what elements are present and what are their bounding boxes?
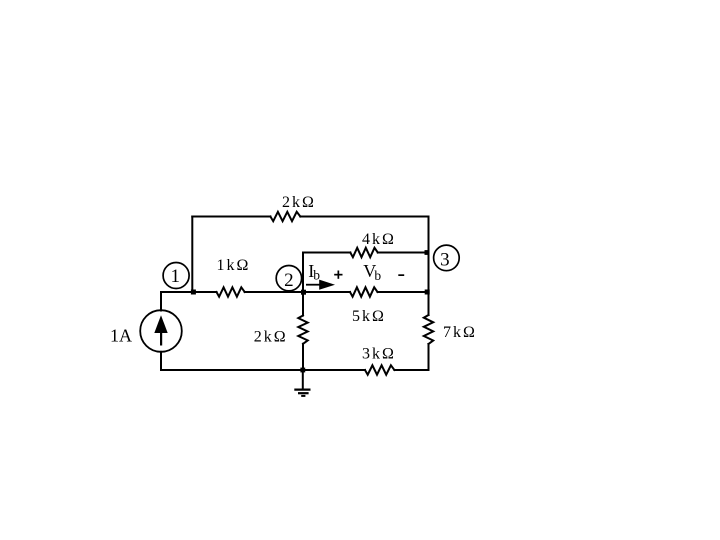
wire top branch right	[300, 216, 428, 218]
svg-text:3: 3	[440, 249, 450, 270]
resistor R2 1k ohm	[217, 287, 245, 296]
svg-text:4kΩ: 4kΩ	[362, 231, 394, 248]
junction dot right middle	[425, 290, 430, 295]
resistor R6 2k ohm (vertical)	[298, 316, 307, 344]
svg-text:1kΩ: 1kΩ	[217, 257, 249, 274]
svg-text:b: b	[374, 268, 381, 283]
wire bottom left	[161, 369, 365, 371]
node 2 circled label	[276, 266, 301, 291]
svg-text:5kΩ: 5kΩ	[352, 308, 384, 325]
wire middle right of 5k	[378, 291, 429, 293]
svg-text:2kΩ: 2kΩ	[282, 194, 314, 211]
wire current source bottom lead	[160, 352, 162, 370]
wire 2k vertical bottom lead	[302, 344, 304, 370]
label minus sign (Vb polarity)	[398, 274, 404, 276]
wire top branch horizontal with 2k resistor	[192, 216, 270, 218]
svg-text:1: 1	[170, 266, 180, 287]
svg-text:1A: 1A	[110, 325, 132, 345]
svg-text:7kΩ: 7kΩ	[443, 324, 475, 341]
resistor R1 2k ohm (top)	[270, 212, 300, 221]
resistor R4 5k ohm	[350, 287, 378, 296]
wire left vertical node1 to top	[191, 217, 193, 293]
junction dot node 3 on 4k wire	[425, 250, 430, 255]
wire bottom right	[394, 369, 428, 371]
svg-text:b: b	[313, 267, 320, 282]
wire current source top lead	[160, 292, 162, 311]
ground symbol bars	[294, 390, 310, 396]
wire 4k branch right stub	[378, 252, 429, 254]
label plus sign (Vb polarity)	[334, 271, 342, 279]
junction dot node 2	[301, 290, 306, 295]
wire middle between 1k and 5k	[245, 291, 350, 293]
wire 7k vertical bottom lead	[428, 344, 430, 370]
wire middle left from source to node1	[161, 291, 217, 293]
current source I1 arrow	[154, 315, 167, 345]
junction dot node 1	[191, 290, 196, 295]
wire 7k vertical top lead	[428, 292, 430, 315]
resistor R3 4k ohm	[350, 248, 378, 257]
node 3 circled label	[434, 245, 460, 271]
resistor R5 3k ohm (bottom)	[365, 365, 394, 374]
svg-text:2: 2	[284, 270, 294, 291]
wire right vertical top	[428, 217, 430, 293]
current source I1 1A circle	[140, 310, 182, 352]
ground stem	[302, 370, 304, 389]
wire 4k branch left stub	[303, 252, 350, 254]
svg-text:3kΩ: 3kΩ	[362, 346, 394, 363]
wire 2k vertical top lead	[302, 292, 304, 316]
arrow Ib current direction	[306, 280, 335, 290]
junction dot at ground	[300, 368, 305, 373]
node 1 circled label	[163, 263, 189, 289]
wire node2 vertical up to 4k branch	[302, 253, 304, 293]
svg-text:2kΩ: 2kΩ	[254, 329, 286, 346]
resistor R7 7k ohm (vertical)	[424, 315, 433, 344]
